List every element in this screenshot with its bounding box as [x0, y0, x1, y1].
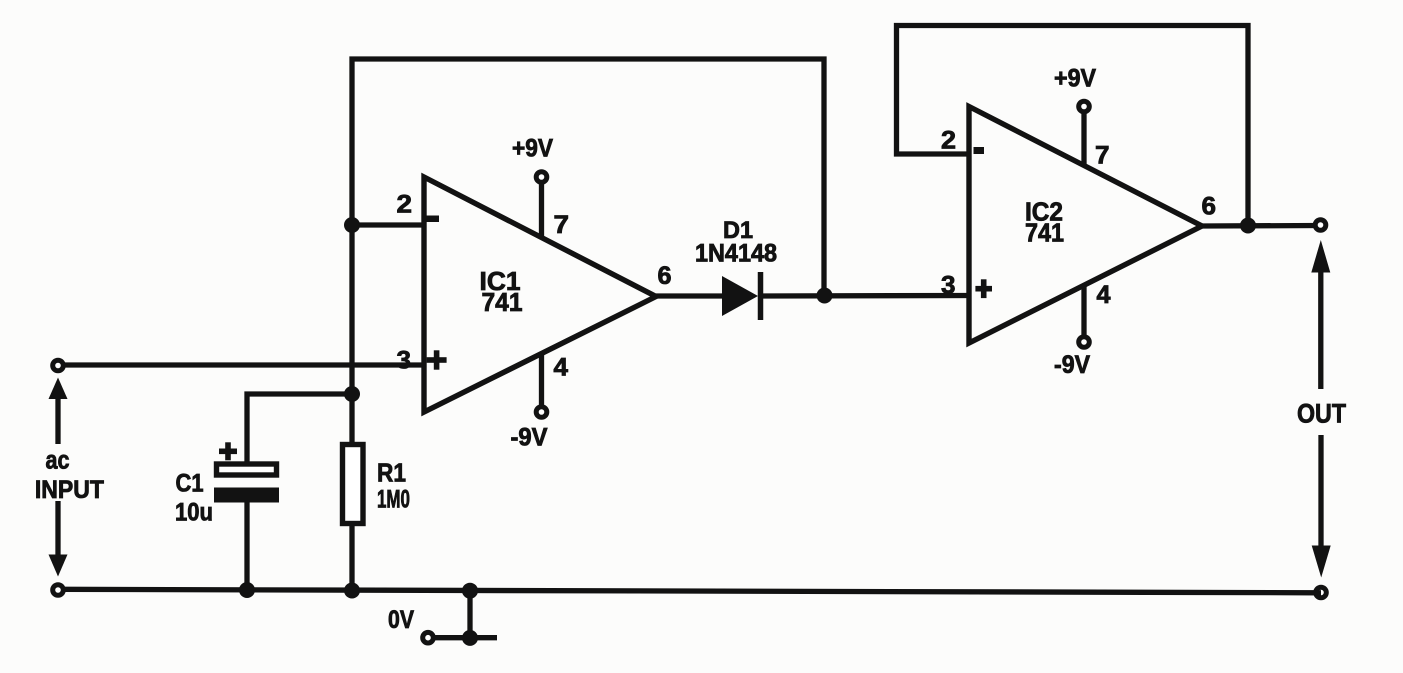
- node: R1 on 0V rail: [344, 583, 360, 599]
- wire: IC1 feedback loop (pin2 node up, across top, down to D1 cathode node): [352, 59, 824, 296]
- wire: C1 top branch: [247, 394, 352, 464]
- terminal: IC2 -9V: [1079, 337, 1090, 348]
- capacitor C1 top plate: [217, 464, 277, 475]
- node: C1 branch junction: [344, 386, 360, 402]
- capacitor C1 plus sign: [219, 442, 237, 460]
- wire: IC2 pin 7 (+9V): [1081, 108, 1086, 168]
- svg-text:7: 7: [1095, 142, 1110, 170]
- input arrow upper line: [55, 397, 60, 444]
- wire: IC2 feedback loop (pin2 across top to output node): [897, 26, 1249, 227]
- OUT arrow upper line: [1318, 270, 1323, 389]
- plus sign IC1: [427, 350, 447, 369]
- input arrow up head: [49, 378, 68, 400]
- wire: R1 bottom lead: [349, 524, 354, 592]
- node: IC1 pin 2 junction: [344, 217, 360, 233]
- node: ground on rail: [462, 583, 478, 599]
- svg-text:2: 2: [397, 191, 413, 219]
- svg-text:ac: ac: [46, 445, 70, 475]
- svg-text:1M0: 1M0: [377, 486, 410, 514]
- svg-text:INPUT: INPUT: [35, 476, 104, 504]
- svg-text:741: 741: [482, 287, 523, 317]
- wire: IC1 pin 4 (-9V): [539, 350, 544, 410]
- input arrow lower line: [55, 501, 60, 557]
- terminal: output bottom: [1316, 587, 1327, 598]
- svg-text:3: 3: [941, 272, 956, 300]
- wire: ground horizontal: [428, 635, 497, 640]
- terminal: input top: [53, 360, 64, 371]
- node: D1 cathode feedback junction: [817, 288, 833, 304]
- svg-text:7: 7: [554, 211, 570, 239]
- wire: IC1 output to D1 anode: [656, 293, 724, 298]
- svg-text:1N4148: 1N4148: [695, 240, 777, 268]
- minus sign IC2: [974, 147, 985, 154]
- diode D1 triangle: [722, 276, 758, 316]
- terminal: IC1 +9V: [536, 172, 547, 183]
- terminal: 0V: [423, 632, 434, 643]
- wire: D1 cathode to IC2 pin 3: [758, 293, 971, 299]
- wire: IC1 pin 2 stub: [350, 222, 426, 227]
- terminal: output top: [1315, 220, 1326, 231]
- op-amp IC2 triangle: [969, 107, 1202, 344]
- wire: C1 bottom lead: [244, 501, 249, 592]
- node: C1 on 0V rail: [239, 582, 255, 598]
- node: IC2 output junction: [1240, 218, 1256, 234]
- OUT arrow lower line: [1318, 435, 1323, 547]
- capacitor C1 bottom plate: [214, 488, 279, 503]
- svg-text:6: 6: [658, 262, 672, 290]
- svg-text:-9V: -9V: [511, 424, 548, 452]
- wire: vertical input network from pin2 node down to R1: [349, 223, 354, 444]
- resistor R1 body: [343, 445, 364, 524]
- terminal: IC1 -9V: [536, 407, 547, 418]
- svg-text:2: 2: [941, 127, 956, 155]
- wire: IC2 output: [1202, 223, 1321, 229]
- input arrow down head: [49, 555, 68, 577]
- svg-text:3: 3: [397, 347, 412, 375]
- wire: IC2 pin 4 (-9V): [1081, 283, 1086, 340]
- svg-text:4: 4: [1097, 281, 1111, 309]
- svg-text:4: 4: [554, 354, 569, 382]
- svg-text:+9V: +9V: [512, 135, 553, 163]
- svg-text:741: 741: [1025, 218, 1064, 248]
- svg-text:10u: 10u: [175, 499, 213, 527]
- svg-text:0V: 0V: [388, 606, 414, 634]
- svg-text:C1: C1: [176, 470, 204, 498]
- svg-text:-9V: -9V: [1054, 351, 1090, 379]
- node: ground lower junction: [462, 630, 478, 646]
- svg-text:R1: R1: [377, 458, 406, 488]
- wire: ground drop from rail: [467, 590, 472, 638]
- op-amp IC1 triangle: [424, 177, 656, 412]
- OUT arrow up head: [1311, 240, 1330, 273]
- wire: ac input to IC1 pin 3: [58, 362, 426, 367]
- diode D1 cathode bar: [758, 272, 764, 320]
- OUT arrow down head: [1312, 546, 1331, 578]
- svg-text:OUT: OUT: [1297, 399, 1346, 429]
- svg-text:6: 6: [1202, 193, 1217, 221]
- terminal: IC2 +9V: [1079, 101, 1090, 112]
- wire: 0V bottom rail: [58, 589, 1321, 593]
- terminal: input bottom: [53, 585, 64, 596]
- wire: IC1 pin 7 (+9V): [539, 178, 544, 240]
- svg-text:+9V: +9V: [1054, 65, 1096, 93]
- minus sign IC1: [427, 216, 440, 223]
- plus sign IC2: [975, 279, 992, 298]
